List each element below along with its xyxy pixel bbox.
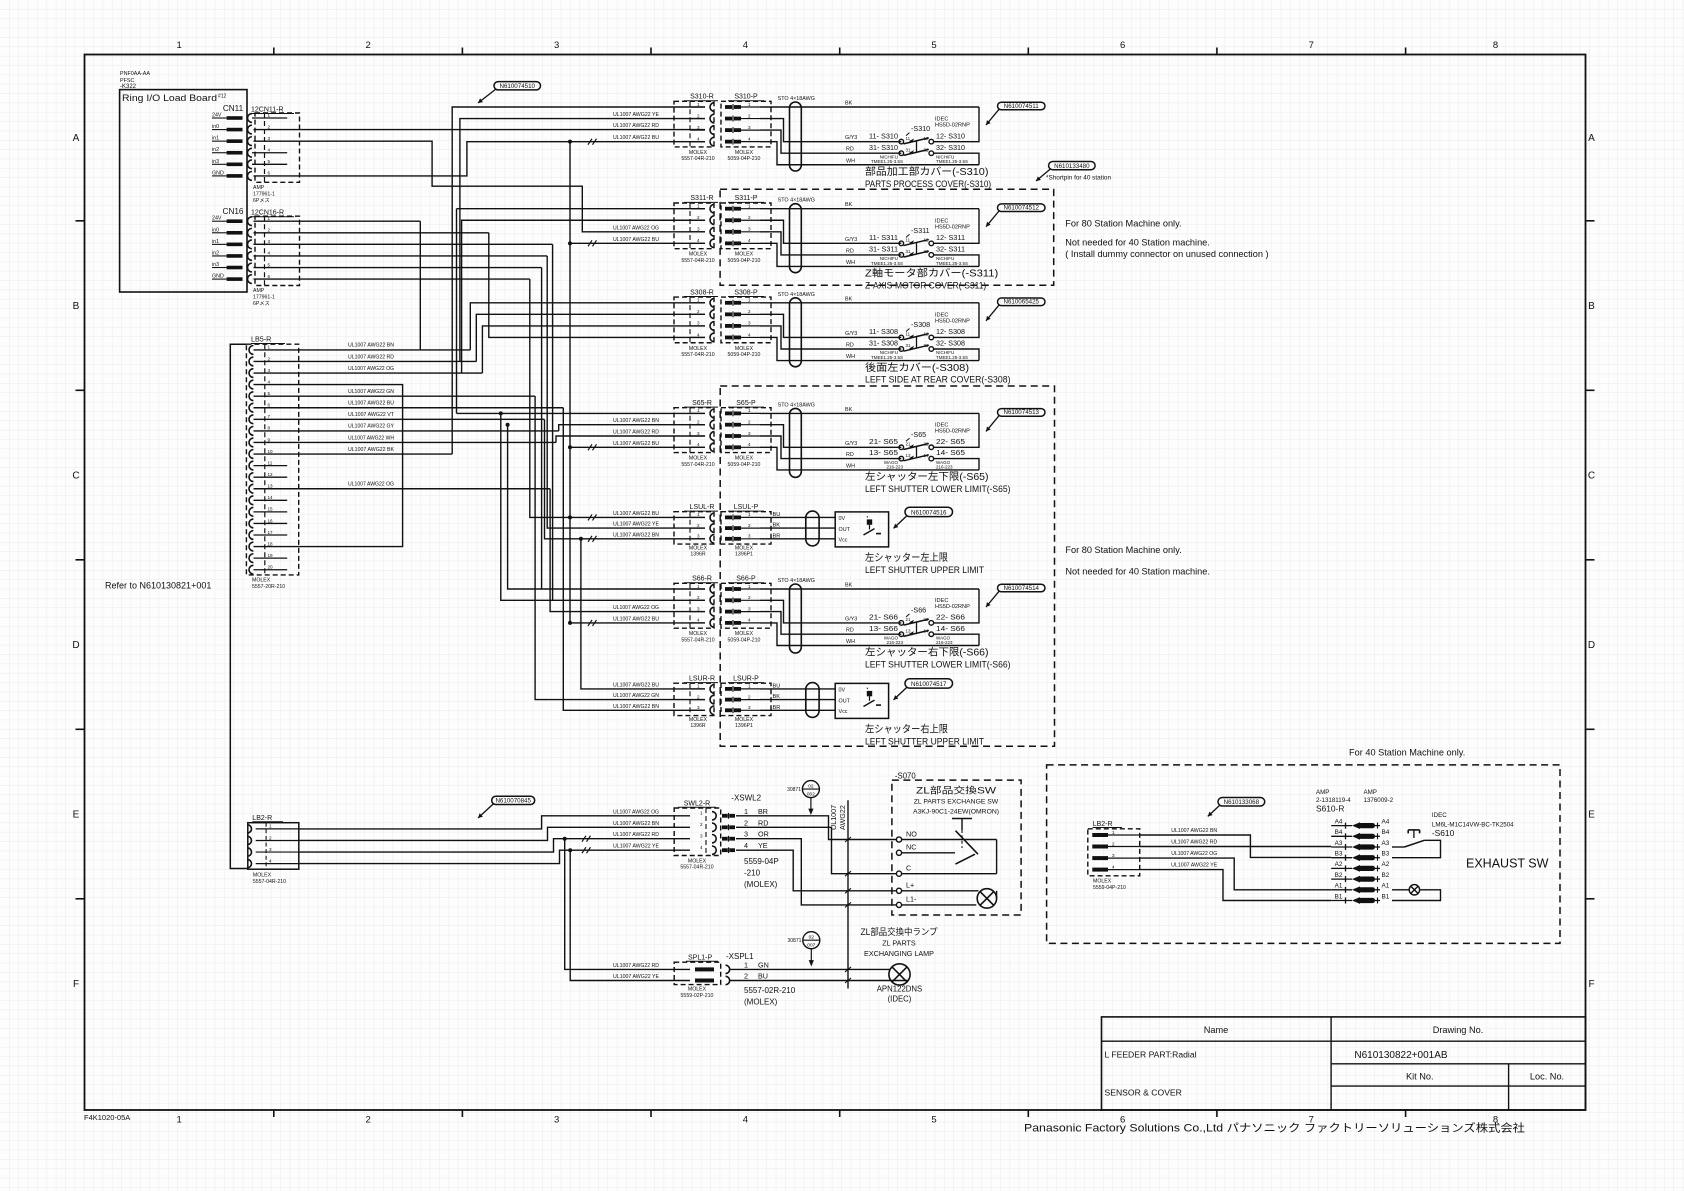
svg-text:3: 3 (268, 136, 271, 141)
wires to SPL1 lamp plug (565, 839, 690, 970)
svg-text:MOLEX: MOLEX (735, 631, 754, 637)
svg-text:OUT: OUT (839, 527, 851, 533)
svg-text:UL1007 AWG22 VT: UL1007 AWG22 VT (348, 412, 395, 418)
switch -S66 contact terminals (899, 621, 904, 626)
svg-text:MOLEX: MOLEX (689, 252, 708, 258)
svg-text:MOLEX: MOLEX (735, 346, 754, 352)
svg-text:LB2-R: LB2-R (1093, 821, 1113, 828)
svg-text:A3KJ-90C1-24EW(OMRON): A3KJ-90C1-24EW(OMRON) (913, 809, 999, 816)
svg-text:4: 4 (269, 858, 272, 863)
svg-text:1: 1 (268, 345, 271, 350)
wire LB5 pin10 BK (254, 453, 453, 455)
svg-text:RD: RD (846, 147, 854, 153)
svg-text:8: 8 (1493, 40, 1498, 51)
svg-text:STO 4×18AWG: STO 4×18AWG (778, 292, 815, 298)
reference balloon N610074514 (998, 584, 1046, 592)
circled ref 30871 02 002 (802, 781, 819, 798)
svg-text:MOLEX: MOLEX (735, 717, 754, 723)
svg-text:4: 4 (697, 136, 700, 141)
S610 lamp and A1 B1 loop (1392, 889, 1409, 891)
svg-text:UL1007 AWG22 OG: UL1007 AWG22 OG (613, 225, 659, 231)
svg-text:21: 21 (906, 442, 911, 447)
reference balloon N610065425 (998, 298, 1046, 306)
svg-text:2: 2 (1112, 842, 1115, 847)
svg-text:32- S310: 32- S310 (936, 144, 965, 152)
svg-text:14: 14 (268, 495, 274, 500)
svg-text:4: 4 (748, 238, 751, 243)
svg-text:部品加工部カバー(-S310): 部品加工部カバー(-S310) (865, 165, 989, 178)
svg-text:21- S66: 21- S66 (869, 614, 898, 622)
svg-text:1: 1 (268, 113, 271, 118)
svg-text:A4: A4 (1335, 818, 1343, 825)
svg-text:For 40 Station Machine only.: For 40 Station Machine only. (1349, 748, 1465, 758)
svg-text:2: 2 (748, 309, 751, 314)
svg-text:16: 16 (268, 518, 274, 523)
svg-text:WH: WH (846, 158, 855, 164)
wire S308 pin3 (482, 326, 705, 373)
svg-text:A4: A4 (1382, 818, 1390, 825)
svg-text:G/Y3: G/Y3 (845, 237, 857, 243)
svg-text:6Pメス: 6Pメス (253, 197, 270, 204)
reference balloon N610074513 (998, 409, 1046, 417)
svg-text:B: B (1588, 301, 1595, 312)
svg-text:UL1007 AWG22 BN: UL1007 AWG22 BN (348, 343, 394, 349)
lamp APN122DNS (889, 964, 910, 985)
svg-text:MOLEX: MOLEX (688, 858, 707, 864)
svg-text:1: 1 (748, 512, 751, 517)
svg-text:RD: RD (758, 818, 768, 827)
svg-text:31- S310: 31- S310 (869, 144, 898, 152)
svg-text:1: 1 (697, 512, 700, 517)
svg-text:31: 31 (906, 249, 911, 254)
svg-text:4: 4 (748, 442, 751, 447)
wire LSUR pin1 from LSUL pin3 branch (581, 539, 705, 689)
svg-text:MOLEX: MOLEX (689, 150, 708, 156)
svg-text:UL1007 AWG22 BN: UL1007 AWG22 BN (613, 704, 659, 710)
svg-text:2: 2 (744, 972, 748, 981)
svg-text:MOLEX: MOLEX (689, 717, 708, 723)
svg-text:LEFT SHUTTER LOWER LIMIT(-S66): LEFT SHUTTER LOWER LIMIT(-S66) (865, 660, 1011, 671)
svg-text:1: 1 (748, 684, 751, 689)
svg-text:5557-04R-210: 5557-04R-210 (253, 879, 286, 885)
svg-text:UL1007 AWG22 YE: UL1007 AWG22 YE (613, 974, 660, 980)
svg-text:4: 4 (748, 332, 751, 337)
svg-text:2: 2 (748, 113, 751, 118)
svg-text:左シャッター右上限: 左シャッター右上限 (865, 722, 949, 735)
svg-text:STO 4×18AWG: STO 4×18AWG (778, 578, 815, 584)
svg-text:UL1007 AWG22 BN: UL1007 AWG22 BN (613, 821, 659, 827)
svg-text:LB5-R: LB5-R (251, 335, 271, 344)
svg-text:-S070: -S070 (895, 772, 916, 781)
svg-text:02: 02 (808, 784, 814, 790)
svg-text:UL1007 AWG22 RD: UL1007 AWG22 RD (613, 832, 659, 838)
wire daisy chain S65 pin1 to S66 pin2 (499, 411, 503, 415)
svg-text:Vcc: Vcc (839, 709, 848, 715)
svg-text:13: 13 (906, 628, 911, 633)
svg-text:5059-04P-210: 5059-04P-210 (728, 156, 761, 162)
svg-text:BR: BR (758, 807, 768, 816)
reference balloon N610074516 (905, 507, 953, 516)
svg-text:LSUR-R: LSUR-R (689, 675, 715, 682)
reference balloon N610074510 (494, 82, 541, 90)
group box 80 station S65 to LSUR (720, 386, 1054, 746)
svg-text:MOLEX: MOLEX (689, 545, 708, 551)
svg-text:B3: B3 (1382, 851, 1390, 858)
svg-text:5059-04P-210: 5059-04P-210 (728, 352, 761, 358)
wire S308 pin2 (476, 314, 705, 361)
svg-text:17: 17 (268, 530, 274, 535)
svg-text:N610074511: N610074511 (1004, 103, 1040, 110)
svg-text:3: 3 (697, 606, 700, 611)
wire BU bus vertical (569, 142, 571, 623)
svg-text:BK: BK (845, 296, 853, 302)
wire LB2 40st OG to A1 (1140, 858, 1332, 890)
svg-text:A: A (1588, 133, 1595, 144)
switch -S66 blades (904, 619, 929, 625)
svg-text:2: 2 (697, 215, 700, 220)
svg-text:30871: 30871 (787, 938, 801, 944)
svg-text:3: 3 (268, 239, 271, 244)
svg-text:MOLEX: MOLEX (1093, 879, 1112, 885)
svg-text:MOLEX: MOLEX (689, 346, 708, 352)
svg-text:S65-R: S65-R (692, 400, 712, 407)
svg-text:後面左カバー(-S308): 後面左カバー(-S308) (865, 361, 969, 374)
svg-text:3: 3 (554, 1115, 559, 1126)
reference balloon N610074517 (905, 679, 953, 688)
svg-text:SENSOR & COVER: SENSOR & COVER (1105, 1088, 1182, 1098)
svg-text:HS5D-02RNP: HS5D-02RNP (935, 318, 970, 324)
svg-text:UL1007 AWG22 BU: UL1007 AWG22 BU (613, 682, 659, 688)
svg-text:11- S310: 11- S310 (869, 132, 898, 140)
svg-text:3: 3 (697, 321, 700, 326)
svg-text:5557-04R-210: 5557-04R-210 (681, 462, 714, 468)
svg-text:4: 4 (268, 251, 271, 256)
svg-text:1: 1 (697, 102, 700, 107)
svg-text:MOLEX: MOLEX (735, 456, 754, 462)
svg-text:A1: A1 (1382, 883, 1390, 890)
svg-text:Ring I/O Load Board: Ring I/O Load Board (122, 93, 217, 103)
svg-text:B2: B2 (1382, 872, 1390, 879)
svg-text:N610074510: N610074510 (500, 83, 536, 90)
svg-text:216-223: 216-223 (886, 465, 903, 470)
svg-text:3: 3 (748, 321, 751, 326)
svg-text:5557-04R-210: 5557-04R-210 (681, 258, 714, 264)
svg-text:13- S65: 13- S65 (869, 449, 898, 457)
svg-text:UL1007 AWG22 BU: UL1007 AWG22 BU (613, 441, 659, 447)
svg-text:2: 2 (268, 356, 271, 361)
wires S308-P to switch terminals (760, 302, 979, 304)
svg-text:L FEEDER PART:Radial: L FEEDER PART:Radial (1105, 1050, 1197, 1060)
wire LB5 pin4 to pin18 loop (254, 385, 403, 547)
wire LB5 pin7 VT (254, 418, 545, 420)
svg-text:1376009-2: 1376009-2 (1364, 797, 1394, 804)
svg-text:B3: B3 (1335, 851, 1343, 858)
svg-text:IDEC: IDEC (1432, 812, 1447, 819)
svg-text:AMP: AMP (253, 185, 265, 191)
svg-text:UL1007 AWG22 OG: UL1007 AWG22 OG (613, 605, 659, 611)
svg-text:10: 10 (268, 449, 274, 454)
svg-text:E: E (73, 810, 80, 821)
svg-text:1: 1 (744, 960, 748, 969)
svg-text:3: 3 (748, 705, 751, 710)
svg-text:TMEE1.25-3.5S: TMEE1.25-3.5S (936, 159, 968, 164)
right ruler ticks and row letters (1586, 220, 1595, 222)
svg-text:ZL部品交換SW: ZL部品交換SW (916, 785, 997, 796)
svg-text:UL1007 AWG22 OG: UL1007 AWG22 OG (348, 366, 394, 372)
svg-text:( Install dummy connector on u: ( Install dummy connector on unused conn… (1065, 249, 1268, 259)
wire LB2 40st RD to A3 (1140, 846, 1332, 848)
svg-text:L1-: L1- (906, 895, 917, 904)
svg-text:6: 6 (268, 274, 271, 279)
svg-text:11- S311: 11- S311 (869, 234, 898, 242)
wire CN16 row1 (254, 220, 421, 222)
svg-text:1: 1 (748, 298, 751, 303)
svg-text:LSUL-P: LSUL-P (734, 504, 759, 511)
svg-text:2: 2 (748, 595, 751, 600)
svg-text:LSUL-R: LSUL-R (690, 504, 715, 511)
svg-text:NO: NO (906, 829, 917, 838)
svg-text:177961-1: 177961-1 (253, 192, 275, 198)
svg-text:4: 4 (697, 442, 700, 447)
svg-text:S310-R: S310-R (690, 94, 714, 101)
switch -S65 contact terminals (899, 445, 904, 450)
svg-text:-S310: -S310 (911, 124, 930, 133)
svg-text:BK: BK (845, 101, 853, 107)
wire CN11 pin3 to S311 pin3 (254, 141, 706, 232)
svg-text:UL1007 AWG22 GN: UL1007 AWG22 GN (613, 693, 659, 699)
circled ref 30871 02 007 (803, 932, 820, 949)
harness bracket wire LB5 to LB2 (230, 344, 248, 868)
svg-text:F: F (73, 979, 79, 990)
svg-text:4: 4 (697, 238, 700, 243)
svg-text:UL1007: UL1007 (829, 805, 838, 830)
svg-text:TMEE1.25-3.5S: TMEE1.25-3.5S (936, 355, 968, 360)
wire S311 pin4 BU (570, 242, 705, 244)
wire S308 pin1 (419, 221, 421, 350)
svg-text:GN: GN (758, 960, 769, 969)
svg-text:5: 5 (931, 40, 936, 51)
svg-text:BK: BK (845, 407, 853, 413)
svg-text:UL1007 AWG22 BN: UL1007 AWG22 BN (1171, 828, 1217, 834)
svg-text:LSUR-P: LSUR-P (733, 675, 759, 682)
svg-text:2: 2 (700, 822, 703, 827)
svg-text:-S65: -S65 (911, 430, 926, 439)
svg-text:5557-04R-210: 5557-04R-210 (681, 352, 714, 358)
svg-text:For 80 Station Machine only.: For 80 Station Machine only. (1065, 545, 1181, 555)
svg-text:EXHAUST SW: EXHAUST SW (1466, 856, 1549, 870)
svg-text:3: 3 (748, 227, 751, 232)
svg-text:MOLEX: MOLEX (688, 987, 707, 993)
svg-text:2: 2 (748, 523, 751, 528)
svg-text:12- S310: 12- S310 (936, 132, 965, 140)
svg-text:TMEE1.25-3.5S: TMEE1.25-3.5S (871, 261, 903, 266)
svg-text:3: 3 (748, 125, 751, 130)
group box 80 station S311 (720, 189, 1054, 285)
wire S310 pin2 YE from below (460, 119, 705, 362)
svg-text:F4K1020-05A: F4K1020-05A (84, 1113, 130, 1122)
S070 lamp (902, 890, 979, 892)
svg-text:4: 4 (1112, 865, 1115, 870)
svg-text:UL1007 AWG22 OG: UL1007 AWG22 OG (613, 809, 659, 815)
svg-text:AMP: AMP (1364, 789, 1377, 796)
wires LSUL to sensor (760, 516, 835, 518)
svg-text:UL1007 AWG22 OG: UL1007 AWG22 OG (348, 482, 394, 488)
svg-text:2: 2 (748, 694, 751, 699)
svg-text:4: 4 (697, 332, 700, 337)
svg-text:2: 2 (697, 309, 700, 314)
svg-text:S310-P: S310-P (734, 94, 758, 101)
wire S610 A3 B3 loop (1392, 840, 1441, 857)
svg-text:5557-04R-210: 5557-04R-210 (681, 637, 714, 643)
svg-text:UL1007 AWG22 BN: UL1007 AWG22 BN (613, 532, 659, 538)
svg-text:N610074517: N610074517 (911, 681, 947, 688)
svg-text:1396P1: 1396P1 (735, 723, 753, 729)
svg-text:WH: WH (846, 260, 855, 266)
wire LB5 pin1 BN (254, 349, 471, 351)
svg-text:D: D (1588, 640, 1595, 651)
svg-text:LB2-R: LB2-R (252, 815, 272, 822)
svg-text:*Shortpin for 40 station: *Shortpin for 40 station (1046, 175, 1111, 182)
wire LSUL pin1 BU (530, 279, 705, 517)
svg-text:5559-02P-210: 5559-02P-210 (681, 993, 714, 999)
svg-text:B1: B1 (1382, 893, 1390, 900)
svg-text:5559-04P: 5559-04P (744, 857, 779, 866)
svg-text:N610074512: N610074512 (1004, 205, 1040, 212)
wire LSUL pin3 BN (545, 419, 706, 538)
svg-text:31- S308: 31- S308 (869, 340, 898, 348)
svg-text:UL1007 AWG22 BU: UL1007 AWG22 BU (613, 135, 659, 141)
svg-text:PNF0AA-AA: PNF0AA-AA (120, 71, 150, 77)
svg-text:UL1007 AWG22 RD: UL1007 AWG22 RD (1171, 840, 1217, 846)
svg-text:TMEE1.25-3.5S: TMEE1.25-3.5S (871, 159, 903, 164)
svg-text:N610133480: N610133480 (1054, 163, 1090, 170)
svg-text:UL1007 AWG22 BU: UL1007 AWG22 BU (613, 616, 659, 622)
svg-text:TMEE1.25-3.5S: TMEE1.25-3.5S (871, 355, 903, 360)
wire LB5 pin2 RD (254, 360, 477, 362)
svg-text:9: 9 (268, 437, 271, 442)
svg-text:MOLEX: MOLEX (689, 456, 708, 462)
cable oval for S311 (790, 204, 802, 273)
wires S66-P to switch terminals (760, 588, 979, 590)
svg-text:SPL1-P: SPL1-P (688, 955, 712, 962)
svg-text:-S311: -S311 (911, 226, 930, 235)
svg-text:2: 2 (365, 1115, 370, 1126)
wire right loop WH to terminal 32 of S308 (934, 349, 980, 361)
svg-text:5557-04R-210: 5557-04R-210 (680, 865, 713, 871)
svg-text:13: 13 (906, 453, 911, 458)
svg-text:32- S308: 32- S308 (936, 340, 965, 348)
svg-text:Kit No.: Kit No. (1406, 1072, 1434, 1082)
svg-text:A2: A2 (1382, 861, 1390, 868)
svg-text:ZL部品交換中ランプ: ZL部品交換中ランプ (861, 926, 938, 937)
svg-text:S610-R: S610-R (1316, 804, 1344, 814)
svg-text:UL1007 AWG22 RD: UL1007 AWG22 RD (613, 123, 659, 129)
svg-text:(MOLEX): (MOLEX) (744, 998, 778, 1007)
svg-text:CN16: CN16 (223, 207, 244, 216)
svg-text:Refer to N610130821+001: Refer to N610130821+001 (105, 581, 211, 591)
svg-text:MOLEX: MOLEX (253, 873, 272, 879)
svg-text:Z軸モータ部カバー(-S311): Z軸モータ部カバー(-S311) (865, 267, 998, 280)
svg-text:2: 2 (268, 124, 271, 129)
svg-text:12- S311: 12- S311 (936, 234, 965, 242)
svg-text:1396R: 1396R (690, 552, 706, 558)
left ruler ticks and row letters (76, 220, 85, 222)
svg-text:2: 2 (365, 40, 370, 51)
wire LB5 pin10 junction vertical (451, 350, 453, 454)
svg-text:UL1007 AWG22 GN: UL1007 AWG22 GN (348, 389, 394, 395)
svg-text:2: 2 (748, 420, 751, 425)
cable oval for S310 (790, 102, 802, 171)
svg-text:1396P1: 1396P1 (735, 552, 753, 558)
svg-text:UL1007 AWG22 YE: UL1007 AWG22 YE (1171, 863, 1218, 869)
svg-text:MOLEX: MOLEX (735, 545, 754, 551)
S070 plunger (952, 818, 972, 820)
svg-text:B1: B1 (1335, 893, 1343, 900)
svg-text:19: 19 (268, 553, 274, 558)
svg-text:11: 11 (906, 136, 911, 141)
wire right loop BK to terminal 12 of S311 (934, 209, 980, 244)
cable oval for LSUR (806, 683, 819, 718)
svg-text:Vcc: Vcc (839, 538, 848, 544)
svg-text:UL1007 AWG22 YE: UL1007 AWG22 YE (613, 844, 660, 850)
svg-text:Not needed for 40 Station mach: Not needed for 40 Station machine. (1065, 567, 1210, 577)
svg-text:1: 1 (697, 684, 700, 689)
switch -S308 contact terminals (899, 335, 904, 340)
svg-text:1: 1 (748, 584, 751, 589)
svg-text:2: 2 (697, 523, 700, 528)
svg-text:B: B (73, 301, 80, 312)
svg-text:N610133068: N610133068 (1224, 799, 1260, 806)
svg-text:22- S66: 22- S66 (936, 614, 965, 622)
wire right loop BK to terminal 12 of S308 (934, 303, 980, 338)
svg-text:31: 31 (906, 343, 911, 348)
switch -S308 blades (904, 334, 929, 340)
svg-text:4: 4 (700, 845, 703, 850)
svg-text:A3: A3 (1335, 840, 1343, 847)
svg-text:3: 3 (269, 847, 272, 852)
svg-text:22- S65: 22- S65 (936, 438, 965, 446)
svg-text:STO 4×18AWG: STO 4×18AWG (778, 402, 815, 408)
svg-text:2: 2 (268, 228, 271, 233)
svg-text:1: 1 (744, 807, 748, 816)
svg-text:5557-20R-210: 5557-20R-210 (252, 584, 285, 590)
wire LB2 40st YE to B1 (1140, 870, 1332, 901)
svg-text:For 80 Station Machine only.: For 80 Station Machine only. (1065, 219, 1181, 229)
svg-text:RD: RD (846, 343, 854, 349)
wire S65 pin2 BN (559, 425, 705, 431)
svg-text:L+: L+ (906, 881, 914, 890)
svg-text:216-223: 216-223 (936, 465, 953, 470)
wire LB5 pin3 OG (254, 372, 483, 374)
svg-text:N610130822+001AB: N610130822+001AB (1354, 1050, 1447, 1061)
svg-text:ZL PARTS: ZL PARTS (882, 938, 916, 947)
wire CN11 pin6 to S310 pin4 BU (254, 142, 706, 176)
svg-text:MOLEX: MOLEX (735, 150, 754, 156)
proximity sensor -LSUR box (835, 683, 888, 718)
svg-text:B4: B4 (1382, 829, 1390, 836)
svg-text:WH: WH (846, 354, 855, 360)
svg-text:LEFT SHUTTER UPPER LIMIT: LEFT SHUTTER UPPER LIMIT (865, 565, 984, 576)
wire LB2 pin3 to SWL2 pin3 RD (299, 839, 690, 852)
svg-text:(MOLEX): (MOLEX) (744, 880, 778, 889)
svg-text:HS5D-02RNP: HS5D-02RNP (935, 428, 970, 434)
svg-text:1: 1 (1112, 830, 1115, 835)
svg-text:6: 6 (268, 403, 271, 408)
svg-text:1: 1 (748, 102, 751, 107)
svg-text:左シャッター右下限(-S66): 左シャッター右下限(-S66) (865, 646, 989, 659)
svg-text:7: 7 (268, 414, 271, 419)
svg-text:7: 7 (1309, 40, 1314, 51)
